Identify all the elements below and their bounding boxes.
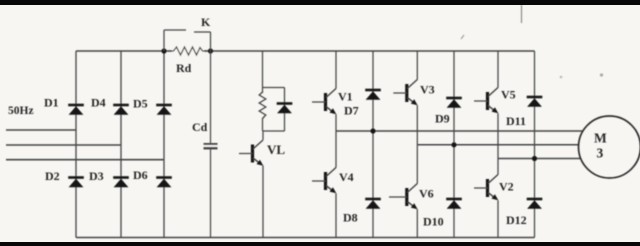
svg-text:V4: V4 [339, 170, 354, 184]
svg-text:V2: V2 [499, 180, 514, 194]
svg-text:D10: D10 [423, 215, 444, 229]
svg-text:M: M [594, 131, 607, 146]
svg-text:D4: D4 [91, 96, 106, 110]
svg-text:K: K [201, 15, 211, 29]
svg-text:VL: VL [267, 142, 285, 157]
svg-text:D3: D3 [89, 169, 104, 183]
svg-text:D1: D1 [44, 96, 59, 110]
svg-text:D12: D12 [506, 213, 527, 227]
svg-text:V3: V3 [420, 83, 435, 97]
svg-text:V6: V6 [419, 187, 434, 201]
svg-text:V1: V1 [338, 90, 353, 104]
svg-text:Rd: Rd [176, 61, 192, 75]
svg-text:D7: D7 [344, 104, 359, 118]
svg-text:D2: D2 [45, 169, 60, 183]
svg-text:D5: D5 [133, 97, 148, 111]
svg-text:D9: D9 [435, 112, 450, 126]
svg-text:D6: D6 [133, 168, 148, 182]
svg-text:D8: D8 [343, 211, 358, 225]
svg-text:Cd: Cd [192, 120, 208, 134]
svg-text:50Hz: 50Hz [8, 105, 34, 117]
svg-text:3: 3 [597, 146, 604, 161]
svg-text:D11: D11 [506, 114, 526, 128]
svg-text:V5: V5 [501, 88, 516, 102]
